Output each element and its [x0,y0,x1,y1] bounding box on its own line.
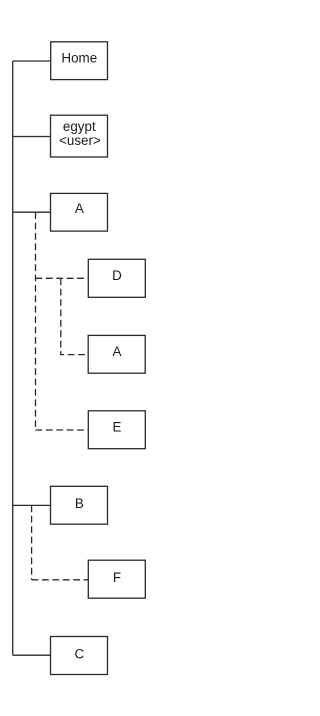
node F [88,560,145,598]
svg-text:<user>: <user> [59,133,101,148]
node A [51,193,108,231]
wire dashed branch to E [36,429,89,431]
svg-text:Home: Home [61,50,97,65]
node C [51,637,108,675]
wire branch to A [13,211,51,213]
svg-text:C: C [74,646,84,661]
svg-text:B: B [75,496,84,511]
node A2 [88,335,145,373]
node E [88,411,145,449]
wire dashed branch to D [36,277,89,279]
svg-text:E: E [113,420,122,435]
wire trunk vertical [12,61,14,655]
node Home [51,42,108,80]
wire dashed subtrunk under B [31,505,33,579]
wire branch to C [13,654,51,656]
wire branch to Home [13,60,51,62]
wire dashed riser to A2 [61,278,88,354]
node D [88,259,145,297]
wire dashed branch to F [32,579,89,581]
svg-text:A: A [113,344,122,359]
wire branch to egypt [13,136,51,138]
wire branch to B [13,504,51,506]
svg-text:D: D [112,268,122,283]
svg-text:egypt: egypt [63,119,96,134]
wire dashed subtrunk under A [35,212,37,430]
node B [51,486,108,524]
svg-text:F: F [113,570,121,585]
svg-text:A: A [75,201,84,216]
node egypt user [51,115,108,157]
